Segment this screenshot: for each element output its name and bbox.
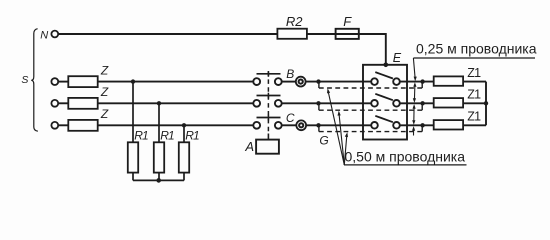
fuse F — [336, 29, 359, 39]
terminal N — [51, 31, 58, 38]
junction dot line3 col3 — [182, 123, 186, 127]
junction dot right 3 — [420, 123, 424, 127]
svg-text:R2: R2 — [286, 14, 303, 29]
leader 0,25 chain — [413, 58, 415, 136]
resistor Z phase 1 — [68, 76, 97, 87]
leaders 0,50 — [328, 90, 347, 165]
resistor Z1 line1 — [434, 76, 463, 85]
E pole 2 — [371, 100, 378, 107]
svg-text:0,25 м проводника: 0,25 м проводника — [416, 41, 537, 57]
svg-text:A: A — [244, 139, 254, 154]
meter B — [296, 77, 306, 87]
resistor R1 c — [179, 142, 189, 172]
svg-text:S: S — [21, 74, 28, 86]
junction dot line3 left — [316, 123, 320, 127]
resistor R2 — [277, 29, 307, 39]
wire — [58, 124, 68, 126]
wire N to R2 — [58, 33, 277, 35]
svg-text:0,50 м проводника: 0,50 м проводника — [345, 149, 466, 165]
dashed conductor 2 — [319, 109, 422, 111]
svg-text:R1: R1 — [134, 129, 148, 143]
dashed conductor 1 — [319, 87, 422, 89]
wire pole2 to E box — [282, 102, 371, 104]
E pole 1 — [371, 78, 378, 85]
step up right 3 — [421, 125, 423, 131]
terminal phase 2 — [51, 100, 58, 107]
switch pole 3 contacts — [253, 122, 260, 129]
resistor Z1 line2 — [434, 98, 463, 107]
resistor R1 b — [154, 142, 164, 172]
svg-text:N: N — [40, 29, 48, 41]
junction dot right 1 — [420, 79, 424, 83]
E pole 3 — [371, 122, 378, 129]
junction dot line2 col2 — [157, 101, 161, 105]
wire Z1b to bus — [463, 102, 486, 104]
svg-text:Z1: Z1 — [467, 110, 481, 124]
step up right 1 — [421, 82, 423, 88]
bus right — [485, 82, 487, 126]
underline 0,25 — [413, 57, 535, 59]
dashed conductor 3 — [319, 131, 422, 133]
resistor Z phase 3 — [68, 120, 97, 131]
wire C to E box — [306, 124, 371, 126]
svg-text:G: G — [319, 133, 328, 147]
switch box E — [363, 65, 407, 140]
junction dot bus — [484, 101, 488, 105]
resistor Z1 line3 — [434, 120, 463, 129]
resistor Z phase 2 — [68, 98, 97, 109]
step up right 2 — [421, 103, 423, 110]
svg-text:E: E — [393, 51, 402, 65]
wire E pole1 out — [400, 81, 434, 83]
svg-text:B: B — [286, 67, 294, 81]
svg-text:R1: R1 — [160, 129, 174, 143]
wire E pole2 out — [400, 102, 434, 104]
wire R1b stub — [158, 173, 160, 181]
wire Z1row to switch — [98, 81, 254, 83]
wire Z1c to bus — [463, 124, 486, 126]
terminal phase 3 — [51, 122, 58, 129]
junction dot R1 common — [156, 178, 161, 183]
wire Z1a to bus — [463, 81, 486, 83]
wire col3 down — [183, 125, 185, 142]
wire col1 down — [132, 82, 134, 143]
switch pole 2 contacts — [253, 100, 260, 107]
linkage dashed — [267, 72, 269, 134]
wire R1a stub — [132, 173, 134, 181]
svg-text:Z: Z — [100, 63, 109, 77]
terminal phase 1 — [51, 78, 58, 85]
wire B to E box — [306, 81, 372, 83]
wire R1c stub — [183, 173, 185, 181]
junction dot E top — [384, 63, 389, 68]
svg-text:Z: Z — [100, 107, 109, 121]
svg-text:Z1: Z1 — [467, 88, 481, 102]
junction dot line1 col1 — [131, 79, 135, 83]
svg-text:Z: Z — [100, 85, 109, 99]
resistor R1 a — [128, 142, 138, 172]
junction dot line1 left — [316, 79, 320, 83]
step down line1 — [318, 82, 320, 88]
svg-text:C: C — [286, 111, 295, 125]
svg-text:R1: R1 — [185, 129, 199, 143]
wire — [98, 102, 254, 104]
svg-text:F: F — [343, 14, 352, 29]
wire — [58, 102, 68, 104]
wire E pole3 out — [400, 124, 434, 126]
step down line2 — [318, 103, 320, 110]
switch pole 1 contacts — [253, 78, 260, 85]
wire R2 to F — [307, 33, 336, 35]
junction dot right 2 — [420, 101, 424, 105]
wire col2 down — [158, 103, 160, 142]
wire pole1 to B — [282, 81, 296, 83]
wire — [58, 81, 68, 83]
meter C — [296, 120, 306, 130]
wire F to E box top — [359, 34, 386, 65]
step down line3 — [318, 125, 320, 131]
svg-text:Z1: Z1 — [467, 66, 481, 80]
junction dot line2 left — [316, 101, 320, 105]
wire R1 common — [133, 179, 184, 181]
device A — [256, 140, 279, 154]
brace S — [31, 29, 38, 132]
wire — [98, 124, 254, 126]
underline 0,50 — [344, 164, 467, 166]
wire pole3 to C — [282, 124, 297, 126]
wire linkage to A — [267, 134, 269, 140]
